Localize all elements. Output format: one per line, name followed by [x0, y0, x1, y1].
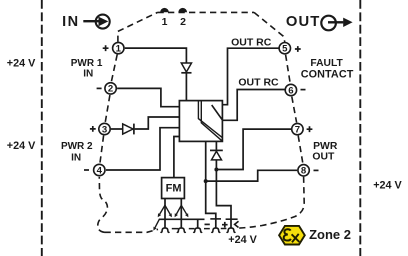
converter band inner line: [201, 101, 222, 142]
switch lever inside converter: [212, 105, 223, 120]
FM block: [162, 178, 185, 199]
terminal 8: [298, 165, 309, 177]
module housing boundary: top-left diagonal from terminal 1: [118, 12, 158, 42]
svg-text:1: 1: [162, 16, 168, 28]
terminal 1: [113, 42, 124, 54]
module housing boundary: bottom-left curve up to terminal 4: [98, 177, 108, 232]
svg-text:7: 7: [295, 124, 300, 135]
discharge arrow at left end of W14: [153, 219, 159, 230]
wire W1: terminal 1 to diode D1 to converter top: [125, 48, 187, 101]
svg-text:PWR: PWR: [313, 141, 338, 152]
discharge arrows on left leg: [158, 205, 172, 217]
svg-text:6: 6: [288, 85, 293, 96]
module housing boundary: top-right diagonal to terminal 5: [254, 12, 285, 42]
svg-text:PWR 1: PWR 1: [71, 58, 103, 69]
minus sign terminal 4: [84, 169, 89, 171]
discharge arrows on right leg: [175, 205, 189, 217]
svg-text:8: 8: [301, 166, 307, 177]
top rail contact bump 1: [160, 8, 169, 12]
diode D2: [210, 150, 223, 160]
svg-text:2: 2: [108, 84, 113, 95]
plus sign terminal 3: [90, 126, 96, 132]
wire W6: terminal 6 to converter right edge: [222, 90, 284, 121]
plus sign bottom bus contact: [222, 222, 228, 228]
input direction icon: circle with arrow: [83, 15, 109, 29]
module housing boundary: link terminal 3 to 4: [100, 136, 104, 164]
plus sign terminal 1: [103, 45, 109, 51]
svg-text:CONTACT: CONTACT: [301, 68, 354, 80]
module housing boundary: top edge: [158, 11, 255, 13]
wire W4: terminal 4 to converter left pin: [106, 128, 179, 170]
wire W9: converter bottom to diode D2 to node A to bus contact S5: [216, 141, 231, 228]
Ex hazardous area logo: [279, 226, 305, 245]
node A junction dot: [214, 168, 218, 172]
svg-text:IN: IN: [62, 14, 80, 30]
svg-text:+24 V: +24 V: [228, 234, 257, 246]
svg-text:5: 5: [282, 44, 288, 55]
wire W8: terminal 8 to node B: [206, 170, 298, 181]
module housing boundary: link terminal 2 to 3: [105, 95, 110, 123]
diode D3: [123, 124, 134, 135]
svg-text:OUT RC: OUT RC: [231, 37, 272, 49]
terminal 3: [99, 123, 110, 135]
wire W3: terminal 3 to diode D3 to converter left pin: [111, 117, 179, 129]
plus sign terminal 5: [295, 46, 301, 52]
terminal 6: [285, 84, 296, 96]
module housing boundary: link terminal 5 to 6: [286, 55, 291, 84]
right +24V supply rail dashed line: [359, 0, 361, 256]
svg-text:+24 V: +24 V: [7, 58, 36, 70]
svg-text:FM: FM: [166, 182, 182, 194]
svg-text:OUT: OUT: [286, 14, 321, 30]
bus contact S4: [211, 228, 220, 232]
svg-text:IN: IN: [83, 69, 93, 80]
minus sign terminal 2: [97, 87, 102, 89]
wire W2: terminal 2 to converter left pin: [117, 88, 179, 106]
plus sign terminal 7: [307, 126, 313, 132]
wire W12: FM left leg to bus contact S1: [164, 199, 166, 229]
svg-text:2: 2: [180, 16, 186, 28]
module housing boundary: below terminal 8 curving to bottom edge: [238, 177, 305, 229]
top rail contact bump 2: [178, 8, 187, 12]
svg-text:OUT: OUT: [312, 152, 335, 163]
left +24V supply rail dashed line: [41, 0, 43, 256]
wire W14: minus rail to bus contact S3: [159, 219, 205, 228]
svg-text:4: 4: [97, 165, 103, 176]
wire W7: terminal 7 to node A: [216, 129, 291, 169]
wire W10: converter bottom to node B to bus contact S4: [206, 141, 216, 228]
contact tick on S4 wire: [210, 218, 221, 220]
terminal 7: [292, 123, 303, 135]
svg-text:+24 V: +24 V: [7, 140, 36, 152]
minus sign terminal 6: [301, 89, 306, 91]
terminal 5: [279, 43, 290, 55]
minus sign bottom bus contact: [205, 223, 210, 225]
module housing boundary: bottom edge: [105, 229, 159, 232]
bus contact S5: [227, 228, 236, 232]
svg-text:IN: IN: [71, 153, 81, 164]
diode D1: [181, 63, 191, 73]
svg-text:3: 3: [102, 124, 107, 135]
wire W11: converter left pin to FM block: [174, 137, 180, 178]
module housing boundary: dashes between bus contacts: [172, 228, 227, 230]
bus contact S2: [177, 228, 186, 232]
terminal 4: [94, 164, 105, 176]
plug chevron at S5: [235, 221, 239, 227]
svg-text:PWR 2: PWR 2: [61, 141, 93, 152]
module housing boundary: link terminal 1 to 2: [111, 55, 117, 83]
svg-text:Zone 2: Zone 2: [309, 227, 351, 242]
wire W5: terminal 5 to switch contact inside converter: [214, 48, 279, 104]
output direction icon: circle with arrow: [321, 16, 352, 31]
svg-text:OUT RC: OUT RC: [238, 77, 279, 89]
module housing boundary: link terminal 7 to 8: [298, 136, 303, 164]
minus sign terminal 8: [314, 169, 319, 171]
module housing boundary: link terminal 6 to 7: [292, 97, 297, 123]
svg-text:+24 V: +24 V: [373, 180, 402, 192]
node B junction dot: [204, 179, 208, 183]
wire W13: FM right leg to bus contact S2: [180, 199, 182, 229]
contact tick on S5 wire: [226, 218, 238, 220]
terminal 2: [105, 83, 116, 95]
bus contact S1: [161, 228, 170, 232]
converter block U1: [179, 101, 222, 142]
bus contact S3: [193, 228, 202, 232]
svg-text:1: 1: [116, 43, 122, 54]
converter band outer line: [198, 101, 222, 138]
